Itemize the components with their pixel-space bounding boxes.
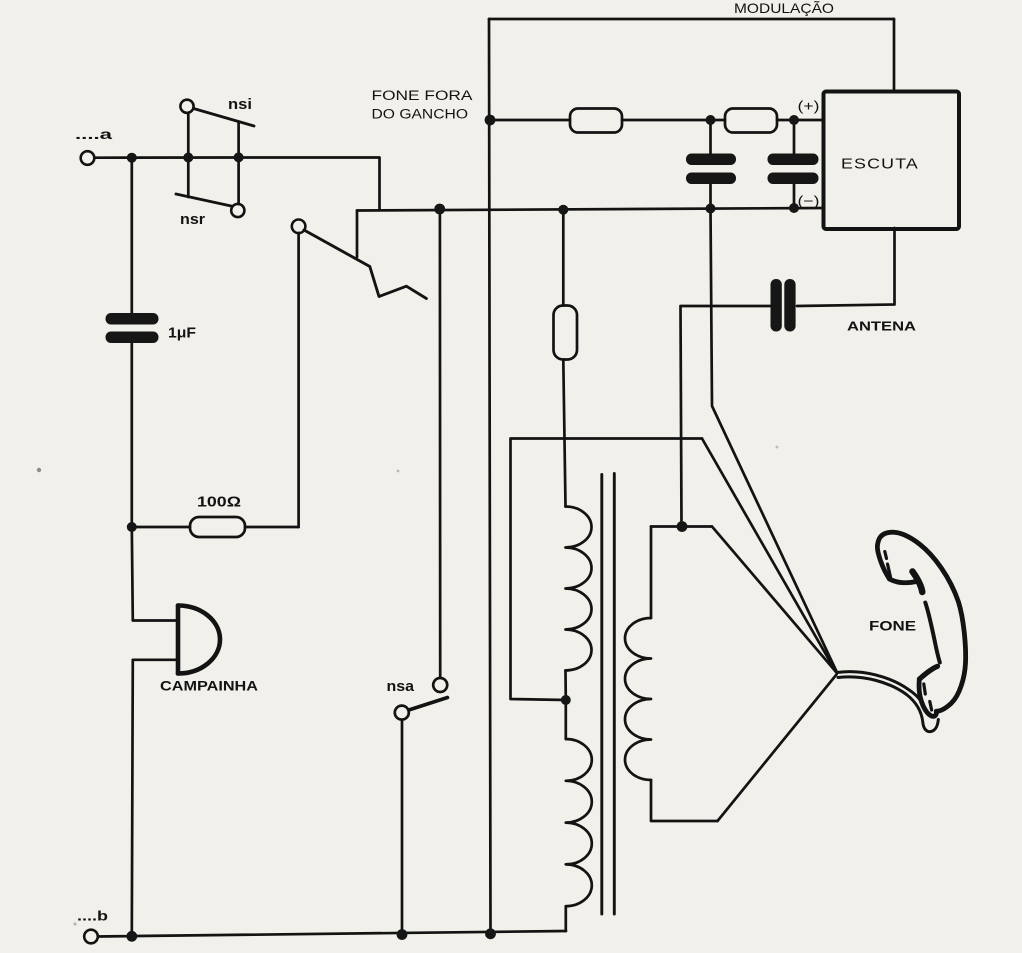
switch nsr left contact wire [187,158,190,198]
wire diagonal secondary-bottom to handset [718,675,837,822]
hook switch circle [292,220,306,234]
svg-text:(−): (−) [798,194,820,209]
wire bus y=209 [357,208,824,211]
wire C-left leads [709,120,712,209]
switch nsi pole wire [187,113,190,158]
telephone handset FONE [877,532,965,716]
handset earpiece inner dashes [885,552,891,578]
svg-text:ESCUTA: ESCUTA [841,156,919,173]
handset inner handle edge [925,603,940,663]
wire bell top lead [132,527,177,621]
resistor R-right (y=120 line) [725,109,777,133]
svg-text:FONE FORA: FONE FORA [372,88,473,103]
transformer secondary winding [625,618,651,780]
handset mouthpiece top edge [920,666,938,679]
switch nsr blade [176,194,238,208]
wire primary center tap stub [564,671,567,740]
switch nsa blade [409,698,448,711]
handset cord curves [837,672,938,732]
switch nsa lower wire [401,720,404,935]
wire escuta top vertical [893,19,896,92]
wire a terminal horizontal [95,156,238,159]
wire antenna left lead [681,306,771,527]
svg-text:nsa: nsa [387,678,415,695]
wire 100ohm left lead [132,526,190,529]
svg-text:DO GANCHO: DO GANCHO [372,107,469,122]
wire 100ohm right lead [245,526,299,529]
wire secondary left vertical [650,527,653,619]
wire bus y=120 segment 1 [490,119,570,122]
transformer primary winding upper [566,507,592,671]
switch nsa pole wire upper [439,211,442,678]
switch nsi right contact wire [237,122,240,158]
handset earpiece cap and outer handle curve [877,532,965,711]
hook switch blade zigzag [304,230,426,299]
resistor R-left (y=120 line) [570,109,622,133]
switch nsi blade [194,109,255,127]
wire bus y=120 segment 2 [622,119,725,122]
transformer core lines [602,474,615,915]
switch nsa circle bottom [395,706,409,720]
capacitor 1uF plates [106,313,159,343]
bell campainha body [178,606,220,674]
transformer primary winding lower [566,739,592,906]
terminal b circle [84,930,98,944]
svg-text:ANTENA: ANTENA [847,319,917,334]
wire secondary top edge [651,525,712,528]
wire center tap to left loop [511,439,703,701]
capacitor C-left plates [686,154,736,185]
wire diagonal secondary-top to handset [712,527,837,673]
switch nsr circle [231,204,244,217]
svg-text:(+): (+) [798,99,820,114]
svg-text:FONE: FONE [869,619,916,634]
wire hook circle down [297,233,300,527]
escuta box [824,92,960,230]
handset mouthpiece body left+bottom+right [919,679,936,716]
wire bottom bus [98,931,566,937]
wire hook fixed contact stub [356,211,359,258]
wire from a-line corner down [237,158,380,210]
wire bell bottom lead [132,660,177,936]
svg-text:....a: ....a [75,126,112,142]
svg-text:1μF: 1μF [168,326,196,342]
scan specks [37,468,41,472]
wire left vertical x=132 mid [130,343,133,527]
terminal a circle [81,151,95,165]
handset mouthpiece inner dashes [924,684,932,710]
svg-text:100Ω: 100Ω [197,495,241,511]
wire escuta bottom to antenna [797,228,895,306]
wire vertical resistor top lead [562,210,565,306]
wire primary bottom lead [564,906,567,931]
capacitor antenna plates [771,279,796,332]
wire top modulacao horizontal [489,18,894,21]
switch nsi circle [180,100,193,113]
wire C-right leads [793,120,796,208]
wire diagonal center-tap to handset [702,439,836,673]
resistor 100ohm [190,517,245,537]
handset earpiece notch wedge [913,572,923,593]
svg-text:MODULAÇÃO: MODULAÇÃO [734,0,834,16]
wire vertical x=710 to handset diagonal [711,209,838,673]
capacitor C-right plates [768,154,819,185]
svg-text:....b: ....b [77,908,108,924]
wire secondary bottom [651,780,718,821]
svg-text:nsi: nsi [228,96,252,113]
switch nsa circle top [433,678,447,692]
wire vertical resistor bottom lead [563,360,565,507]
resistor vertical (middle) [554,306,578,360]
wire left vertical x=132 upper [130,158,133,313]
handset earpiece bottom edge [890,579,917,583]
svg-text:nsr: nsr [180,211,205,228]
svg-text:CAMPAINHA: CAMPAINHA [160,679,258,694]
switch nsr pole wire [237,158,240,205]
wire bus y=120 segment 3 [777,119,824,122]
wire modulacao left vertical (full height) [489,19,491,934]
